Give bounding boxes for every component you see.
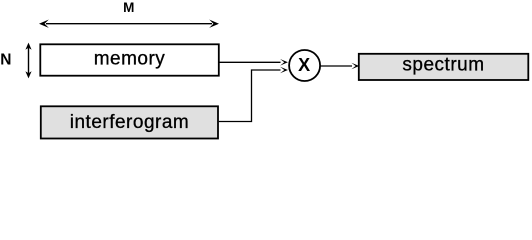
svg-text:M: M [123, 0, 134, 15]
svg-text:memory: memory [94, 49, 166, 70]
interferogram box [41, 106, 218, 138]
memory box [40, 44, 219, 75]
svg-text:spectrum: spectrum [402, 54, 484, 75]
dimension arrow M (horizontal double arrow) [39, 20, 219, 28]
svg-text:X: X [298, 55, 310, 75]
wire: memory to multiplier [220, 59, 288, 66]
svg-text:interferogram: interferogram [70, 112, 190, 133]
svg-text:N: N [0, 51, 11, 68]
dimension arrow N (vertical double arrow) [25, 43, 31, 79]
wire: interferogram to multiplier (right, up, right) [219, 70, 281, 122]
spectrum box [359, 54, 529, 80]
wire: multiplier to spectrum [320, 63, 359, 70]
multiplier circle U1 [289, 50, 320, 81]
